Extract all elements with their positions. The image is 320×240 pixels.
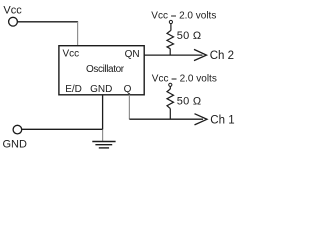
svg-text:GND: GND: [3, 138, 28, 150]
svg-text:Vcc: Vcc: [63, 49, 80, 60]
svg-text:GND: GND: [90, 84, 112, 95]
svg-text:Vcc – 2.0 volts: Vcc – 2.0 volts: [152, 73, 217, 84]
svg-text:Ch 1: Ch 1: [210, 114, 234, 126]
svg-text:Ch 2: Ch 2: [210, 50, 234, 62]
svg-text:Vcc: Vcc: [3, 5, 22, 17]
svg-text:Q: Q: [124, 84, 132, 95]
svg-text:E/D: E/D: [65, 84, 82, 95]
svg-text:50 Ω: 50 Ω: [177, 96, 202, 108]
svg-text:50 Ω: 50 Ω: [177, 30, 202, 42]
svg-text:QN: QN: [125, 49, 140, 60]
svg-text:Oscillator: Oscillator: [86, 64, 125, 75]
svg-text:Vcc – 2.0 volts: Vcc – 2.0 volts: [151, 10, 216, 21]
